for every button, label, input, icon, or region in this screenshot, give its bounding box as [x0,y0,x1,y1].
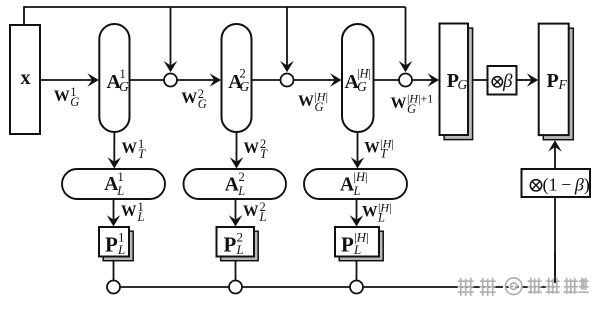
wire top bus drop to input block X [23,6,25,26]
svg-text:G: G [119,79,129,94]
arrow WT2 AG2 to AL2 [230,132,244,169]
junction circle J2 [281,74,294,87]
label WGH1 [391,91,434,116]
box otimes-one-minus-beta [522,169,591,197]
label AG2 [228,67,249,95]
capsule AL1 [62,169,165,199]
label PF [547,70,568,92]
label WLH [362,201,391,225]
wire AGH to junction J3 [374,79,400,81]
wire AG2 to junction J2 [252,79,281,81]
svg-text:W: W [298,93,314,110]
stacked box PL2 [217,227,259,261]
svg-text:A: A [340,174,354,195]
stacked box PL1 [99,227,133,261]
svg-text:L: L [237,184,245,198]
svg-text:L: L [117,242,125,257]
svg-text:W: W [121,203,137,220]
arrow WT1 AG1 to AL1 [108,132,122,169]
arrow top bus into junction J3 [399,7,413,72]
capsule AG2 [222,24,252,132]
svg-text:G: G [357,79,367,94]
label WG2 [181,87,207,111]
wire PG to otimes-beta [473,79,488,81]
arrow WL1 AL1 to PL1 [107,199,121,227]
svg-text:A: A [104,174,118,195]
junction circle J3 [399,74,412,87]
stacked box PG [440,24,473,140]
junction circle B3 [350,281,363,294]
arrow WLH ALH to PLH [350,199,364,227]
label PG [447,70,468,92]
svg-text:W: W [364,140,380,157]
svg-text:G: G [407,102,416,116]
wire bottom bus B2 to B3 [242,286,350,288]
svg-text:T: T [260,147,268,161]
label AG1 [107,67,130,94]
svg-text:L: L [259,210,267,224]
wire PL2 to junction B2 [235,261,237,281]
label AGH [345,67,372,95]
svg-text:A: A [225,174,239,195]
svg-text:L: L [236,242,244,257]
label PL2 [224,229,244,257]
stacked box PF [539,24,574,140]
label WTH [364,137,393,161]
capsule AG1 [99,24,129,132]
svg-text:T: T [138,147,146,161]
wire AG1 to junction J1 [130,79,165,81]
svg-text:L: L [137,210,145,224]
svg-text:W: W [391,95,407,112]
svg-text:P: P [224,232,237,256]
arrow J3 to PG [412,73,439,87]
label WT2 [244,137,269,161]
label ALH [340,170,368,198]
wire right riser bottom segment [554,197,556,288]
svg-text:L: L [353,242,361,257]
capsule AL2 [184,169,287,199]
label AL1 [104,170,124,198]
label AL2 [225,170,245,198]
label PLH [341,229,369,257]
wire bottom bus B1 to B2 [120,286,229,288]
arrow top bus into junction J2 [280,7,294,72]
arrow riser into PF bottom [548,140,562,169]
arrow J1 to AG2 [177,73,221,87]
arrow WG1 from X to AG1 [40,73,99,87]
svg-text:F: F [558,77,568,92]
box otimes-beta [488,66,517,95]
arrow WL2 AL2 to PL2 [229,199,243,227]
wire bottom bus B3 to right riser [363,286,555,288]
junction circle B2 [229,281,242,294]
arrow top bus into junction J1 [164,7,178,72]
svg-text:L: L [353,184,361,198]
watermark zhihu text [456,276,589,296]
svg-text:G: G [315,100,324,114]
svg-text:W: W [54,88,70,105]
svg-text:G: G [198,97,207,111]
svg-text:P: P [547,70,559,92]
svg-text:2: 2 [239,170,245,184]
svg-text:|H|: |H| [354,170,368,184]
svg-text:L: L [116,184,124,198]
symbol otimes in beta box [492,77,502,87]
svg-text:P: P [341,232,354,256]
svg-text:W: W [362,204,378,221]
symbol otimes in one-minus-beta box [530,180,541,191]
label WG1 [54,85,80,109]
svg-text:(1 − β): (1 − β) [543,175,590,196]
stacked box PLH [335,227,383,261]
wire right riser over watermark [554,252,556,283]
svg-text:G: G [240,79,250,94]
svg-text:W: W [244,140,260,157]
svg-text:G: G [70,95,79,109]
arrow WTH AGH to ALH [351,132,365,169]
label WGH [298,89,328,113]
label PL1 [105,229,125,257]
svg-text:x: x [21,67,31,89]
arrow J2 to AGH [294,73,342,87]
label WL2 [243,200,267,224]
wire PL1 to junction B1 [113,261,115,281]
label WL1 [121,200,145,224]
capsule ALH [304,169,407,199]
label WT1 [122,137,147,161]
svg-text:W: W [122,140,138,157]
junction circle B1 [107,281,120,294]
wire top bus horizontal [24,6,406,8]
arrow otimes-beta to PF [517,73,539,87]
svg-text:W: W [243,203,259,220]
svg-text:T: T [380,147,388,161]
svg-text:1: 1 [118,170,124,184]
svg-text:L: L [377,211,385,225]
svg-text:β: β [502,71,513,92]
junction circle J1 [164,74,177,87]
svg-text:G: G [458,77,468,92]
capsule AGH [342,24,374,132]
wire PLH to junction B3 [356,261,358,281]
svg-text:P: P [105,232,118,256]
svg-text:W: W [181,90,197,107]
block X input feature matrix [10,25,40,134]
